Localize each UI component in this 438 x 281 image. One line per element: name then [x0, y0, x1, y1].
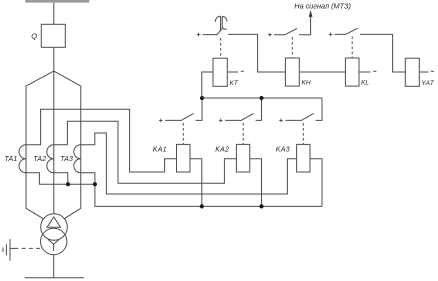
relay coil KA1	[177, 144, 191, 172]
svg-text:KL: KL	[361, 80, 369, 87]
wire TA3 secondary bottom	[81, 173, 95, 184]
wire	[26, 71, 54, 219]
svg-text:KA2: KA2	[215, 146, 229, 153]
wire bus	[202, 97, 322, 99]
wire KT left lead	[202, 72, 213, 98]
svg-text:TA2: TA2	[33, 156, 46, 163]
current transformer TA2	[47, 145, 54, 173]
wire common return to relays	[95, 184, 322, 206]
wire bottom line	[25, 277, 84, 279]
wire KA2 to return	[250, 159, 262, 207]
contact KL	[329, 33, 333, 37]
minus terminal KL	[373, 70, 376, 72]
contact KT timed	[197, 33, 201, 37]
wire neutral dashed	[10, 247, 15, 249]
current transformer TA3	[74, 145, 81, 173]
wire	[54, 71, 81, 219]
wire	[53, 47, 55, 213]
time delay symbol	[215, 16, 227, 31]
relay coil KH	[285, 58, 299, 86]
wire TA1 secondary top to KA1	[26, 109, 177, 172]
node bus mid junction	[259, 96, 263, 100]
trip coil YAT	[405, 58, 419, 86]
contact KA2	[219, 119, 223, 123]
node bus left junction	[200, 96, 204, 100]
relay coil KA3	[297, 144, 310, 172]
contact KA3	[279, 119, 283, 123]
minus terminal KT	[241, 70, 244, 72]
wire	[53, 3, 55, 25]
wire KA1 to return	[190, 159, 202, 207]
wire KH to KL	[299, 71, 345, 73]
wire YAT right lead	[419, 71, 428, 73]
wire transformer to bottom	[53, 255, 55, 278]
wye winding symbol	[48, 239, 59, 251]
wire TA1 secondary bottom common return	[26, 173, 95, 184]
svg-text:KT: KT	[230, 80, 239, 87]
transformer T primary circle	[41, 214, 68, 241]
arrow to signal	[309, 10, 313, 17]
minus terminal YAT	[431, 70, 434, 72]
svg-text:YAT: YAT	[421, 80, 435, 87]
wire TA2 secondary top to KA2	[54, 121, 237, 183]
mechanical link KH	[291, 37, 293, 58]
svg-text:TA3: TA3	[60, 156, 73, 163]
relay coil KL	[345, 58, 359, 86]
node TA2 return junction	[66, 182, 70, 186]
mechanical link KA3	[302, 123, 304, 144]
mechanical link KL	[351, 37, 353, 59]
svg-text:На сигнал (МТЗ): На сигнал (МТЗ)	[294, 2, 351, 11]
node KA2 return junction	[259, 204, 263, 208]
contact KA1	[159, 119, 163, 123]
svg-text:TA1: TA1	[5, 156, 18, 163]
svg-text:KA1: KA1	[153, 146, 167, 153]
wire KT right lead	[227, 71, 238, 73]
wire KT contact to KH coil	[228, 34, 285, 72]
contact KH	[268, 33, 272, 37]
svg-text:KA3: KA3	[276, 146, 290, 153]
circuit breaker Q	[41, 24, 65, 47]
wire KA3 to return	[310, 159, 322, 207]
mechanical link KT	[220, 38, 222, 58]
ground	[3, 239, 10, 261]
wire TA2 secondary bottom	[54, 173, 68, 184]
node TA3 return junction	[93, 182, 97, 186]
node KA1 return junction	[200, 204, 204, 208]
current transformer TA1	[19, 145, 26, 173]
relay coil KT	[213, 58, 227, 86]
wire KL right lead	[359, 71, 370, 73]
wire TA3 secondary top to KA3	[81, 133, 297, 194]
relay coil KA2	[236, 144, 249, 172]
mechanical link KA2	[242, 123, 244, 144]
delta winding symbol	[47, 217, 61, 227]
transformer T secondary circle	[41, 228, 67, 254]
busbar	[25, 0, 89, 3]
svg-text:KH: KH	[302, 80, 311, 87]
mechanical link KA1	[182, 123, 184, 144]
svg-text:Q: Q	[31, 31, 37, 40]
